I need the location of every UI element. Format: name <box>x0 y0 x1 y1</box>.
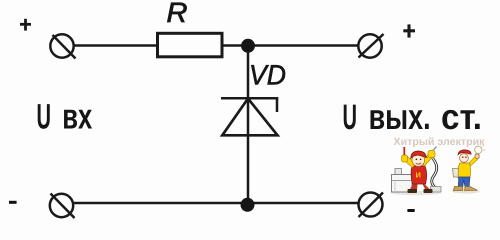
svg-text:R: R <box>167 0 188 28</box>
svg-text:Хитрый электрик: Хитрый электрик <box>394 136 486 148</box>
svg-text:вх: вх <box>62 97 92 137</box>
svg-text:U: U <box>37 97 52 137</box>
svg-text:ст.: ст. <box>441 97 482 137</box>
svg-text:VD: VD <box>249 59 286 90</box>
svg-text:U: U <box>343 97 358 137</box>
svg-text:И: И <box>416 171 421 180</box>
svg-text:вых.: вых. <box>369 97 431 137</box>
